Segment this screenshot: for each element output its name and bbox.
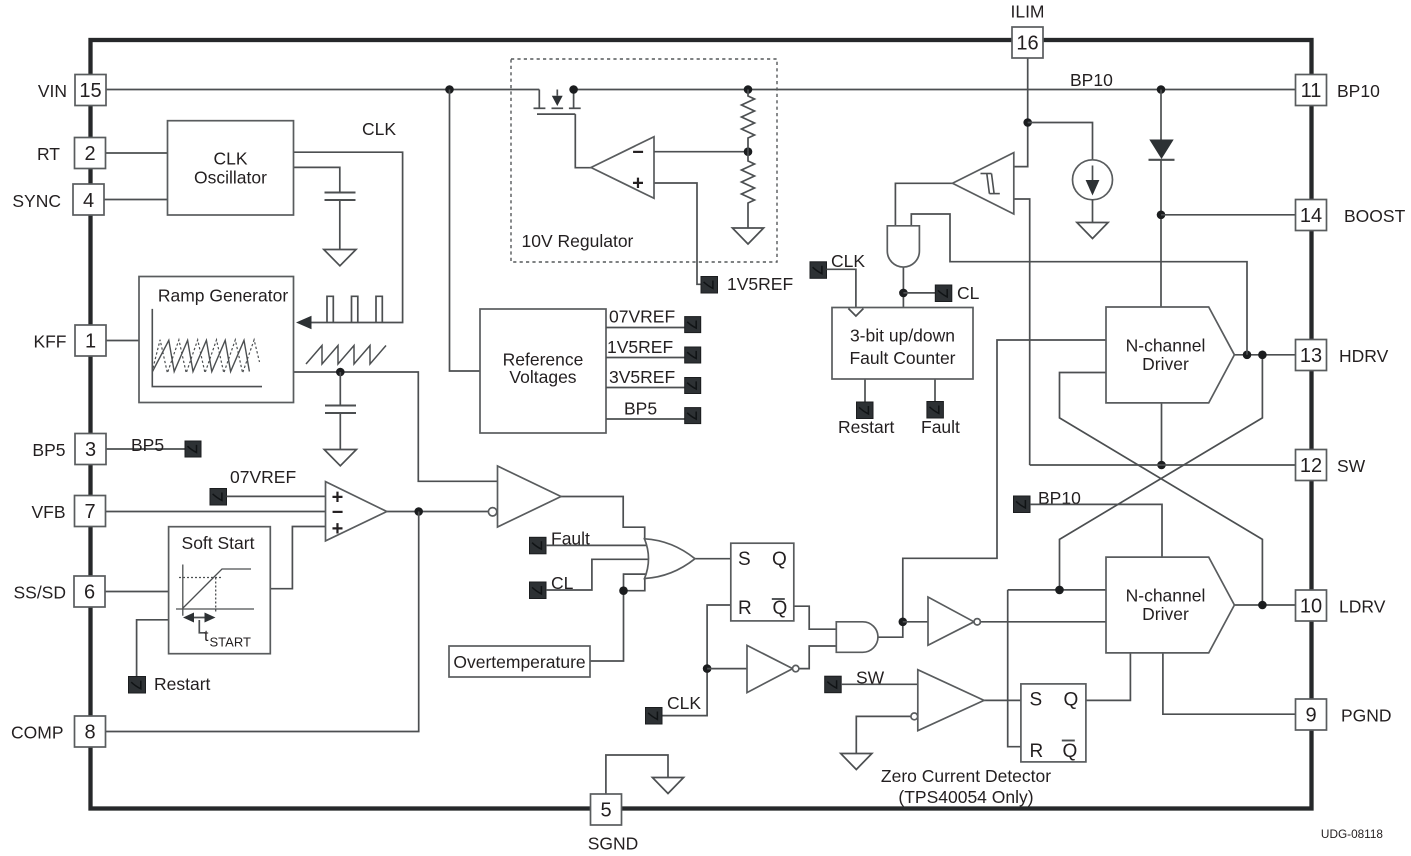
wire ramp capacitor to ground [339,413,341,449]
svg-text:2: 2 [84,143,95,165]
pin HDRV 13 [1296,340,1389,371]
wire 10V regulator output to 1V5REF [654,183,701,284]
transistor arrow [552,96,563,106]
node HDRV output junction A [1243,351,1252,360]
wire ILIM comparator output to fault AND [895,183,952,226]
wire soft start to error amplifier [270,527,325,589]
node CL junction [899,289,908,298]
svg-text:SS/SD: SS/SD [13,583,66,603]
ground below oscillator capacitor [324,250,356,266]
node LDRV output junction [1258,601,1267,610]
wire ILIM junction to current source [1028,123,1093,161]
svg-text:VFB: VFB [31,502,65,522]
node rail-resistor junction [744,85,753,94]
latch U1 SR PWM [731,543,794,621]
wire oscillator to timing capacitor [294,167,340,192]
wire BP10 tag to LDRV driver [1030,504,1162,557]
comparator zero current detector [911,670,984,731]
node BP10 rail diode junction [1157,85,1166,94]
wire HDRV output to pin 13 [1234,354,1295,356]
resistor lower divider [742,152,755,228]
wire HDRV cross-couple down to LDRV and latch2 R [1060,355,1263,590]
capacitor oscillator timing [325,193,356,201]
wire OR gate to latch S [695,558,731,560]
svg-text:PGND: PGND [1341,706,1392,726]
tag 3V5REF output [685,378,701,394]
svg-text:07VREF: 07VREF [609,307,675,327]
svg-text:Restart: Restart [154,674,211,694]
svg-text:15: 15 [79,80,101,102]
block Overtemperature [449,646,590,677]
node VIN-RefVoltages junction [445,85,454,94]
wire CLK oscillator to ramp generator [294,152,403,322]
wire op-amp inverting input to divider [654,151,748,153]
wire PWM comparator to OR gate [561,497,645,541]
and-gate PWM output AND [836,622,878,653]
svg-text:(TPS40054 Only): (TPS40054 Only) [898,787,1033,807]
driver N-channel HDRV [1106,307,1234,403]
ground below ramp capacitor [324,450,356,466]
transistor 10V regulator pass FET [534,90,592,168]
pin RT 2 [37,138,106,169]
svg-text:Q: Q [1063,741,1078,762]
svg-text:Soft Start: Soft Start [182,533,255,553]
wire ZCD comparator to latch2 S [984,699,1021,701]
wire Fault tag to OR gate [546,544,649,546]
tag CL (fault counter) [935,285,952,302]
wire capacitor to ground [339,200,341,249]
svg-text:RT: RT [37,144,60,164]
box 10V regulator dashed [511,59,777,262]
svg-text:−: − [632,142,644,164]
pin SGND 5 [588,794,639,854]
svg-text:Fault Counter: Fault Counter [849,348,955,368]
svg-text:10V Regulator: 10V Regulator [522,231,634,251]
svg-text:1: 1 [85,331,96,353]
svg-text:13: 13 [1300,345,1322,367]
wire VIN to Reference Voltages [450,90,481,372]
svg-text:BP5: BP5 [624,399,657,419]
node CLK-inverter junction [703,664,712,673]
resistor upper divider [742,90,755,152]
svg-text:ILIM: ILIM [1010,2,1044,22]
and-gate fault counter clock [887,226,919,267]
wire rail to diode [1160,90,1162,141]
node LDRV input junction [1055,586,1064,595]
wire ramp junction to capacitor [339,372,341,405]
comparator ILIM with hysteresis [953,153,1014,214]
node overtemperature junction [619,586,628,595]
tag 1V5REF [701,277,718,294]
svg-text:VIN: VIN [38,81,67,101]
svg-text:Zero Current Detector: Zero Current Detector [881,766,1051,786]
tag Restart (soft start) [129,677,146,694]
comparator PWM [488,466,561,527]
block 3-bit up/down Fault Counter [832,308,973,380]
svg-text:16: 16 [1016,33,1038,55]
wire CLK junction to inverter [707,668,747,670]
node ramp-capacitor junction [336,368,345,377]
ground SGND [652,778,683,794]
block Reference Voltages [480,309,606,433]
wire AND output to LDRV buffer [903,621,928,623]
wire LDRV input horizontal [1008,589,1106,591]
icon ramp waveform solid sawtooth [153,340,250,371]
wire SGND pin to ground [606,755,668,794]
svg-text:Q: Q [772,549,787,570]
svg-text:KFF: KFF [33,332,66,352]
wire LDRV driver bottom to PGND [1163,653,1296,714]
tag 1V5REF output [685,347,701,363]
wire inverter to AND gate [798,646,836,669]
wire 07VREF to error amplifier [227,495,326,497]
block Soft Start [169,527,271,654]
ground divider [732,228,763,244]
svg-text:R: R [738,598,752,619]
wire LDRV cross-couple up to HDRV [1060,373,1263,606]
svg-text:8: 8 [84,722,95,744]
svg-text:1V5REF: 1V5REF [727,274,793,294]
inverter CLK [747,645,799,692]
svg-text:1V5REF: 1V5REF [607,337,673,357]
node divider junction [744,147,753,156]
svg-text:Driver: Driver [1142,354,1189,374]
svg-text:Overtemperature: Overtemperature [453,652,585,672]
wire counter Restart stub [864,379,866,402]
wire ZCD comparator inverting input to ground [856,716,911,753]
wire CLK tag to fault counter [827,269,856,307]
wire latch Qbar to AND gate [794,606,837,629]
wire CL junction to tag [903,292,935,294]
tag CLK (fault counter) [810,262,827,279]
svg-text:R: R [1030,741,1044,762]
wire to latch2 R [1008,590,1021,747]
svg-text:CL: CL [957,283,980,303]
svg-text:14: 14 [1300,205,1322,227]
wire overtemperature jog into OR [624,578,645,591]
driver N-channel LDRV [1106,557,1234,653]
pin LDRV 10 [1296,590,1386,621]
icon ramp waveform dashed sawtooth [153,340,260,373]
svg-text:Restart: Restart [838,417,895,437]
svg-text:BP5: BP5 [131,435,164,455]
svg-text:6: 6 [84,582,95,604]
svg-text:BOOST: BOOST [1344,206,1406,226]
tag CLK (latch R) [646,708,663,725]
wire CL tag to OR gate [546,559,652,590]
icon soft start curve [176,565,254,616]
svg-text:10: 10 [1300,596,1322,618]
wire counter Fault stub [934,379,936,402]
svg-text:4: 4 [83,190,94,212]
svg-text:9: 9 [1305,705,1316,727]
svg-text:Driver: Driver [1142,604,1189,624]
pin BP5 3 [32,434,106,465]
tag BP5 output [685,408,701,424]
icon soft start tstart arrows [183,613,216,633]
svg-text:SW: SW [1337,456,1366,476]
wire SYNC to oscillator [104,199,168,201]
svg-text:Ramp Generator: Ramp Generator [158,286,289,306]
pin COMP 8 [11,716,106,747]
pin SYNC 4 [12,184,104,215]
tag Fault (counter) [927,402,944,419]
svg-text:LDRV: LDRV [1339,597,1386,617]
wire SW tag to ZCD comparator [841,683,918,685]
wire VIN rail pin15 to FET [106,89,539,91]
block Ramp Generator [139,277,294,403]
IC boundary frame [91,40,1312,809]
tag 07VREF [210,489,227,506]
svg-text:BP10: BP10 [1337,81,1380,101]
svg-text:S: S [738,549,751,570]
node HDRV output junction B [1258,351,1267,360]
wire ramp output [294,372,498,481]
label tSTART [204,628,251,650]
pin PGND 9 [1296,699,1392,730]
wire LDRV output to pin 10 [1234,604,1295,606]
wire COMP to pin 8 [106,512,419,732]
block CLK Oscillator [168,121,294,215]
wire VFB to error amplifier [106,511,326,513]
svg-text:N-channel: N-channel [1126,336,1206,356]
wire latch2 Q to LDRV driver [1086,653,1131,701]
wire overtemperature to OR gate [590,574,646,661]
wire BOOST to pin 14 [1161,214,1296,216]
svg-text:Fault: Fault [921,417,960,437]
svg-text:07VREF: 07VREF [230,467,296,487]
svg-text:S: S [1030,690,1043,711]
svg-text:Oscillator: Oscillator [194,168,267,188]
wire current source to ground [1092,199,1094,222]
node BOOST junction [1157,211,1166,220]
svg-text:Q: Q [773,598,788,619]
svg-text:Voltages: Voltages [509,367,576,387]
wire HDRV output feedback to fault AND [911,214,1247,355]
svg-text:Q: Q [1064,690,1079,711]
op-amp 10V regulator [591,137,654,199]
wire 3V5REF output [606,387,685,389]
waveform clock pulses [327,296,382,322]
latch U2 zero current SR [1021,684,1086,762]
svg-text:7: 7 [84,501,95,523]
wire 07VREF output [606,327,685,329]
pin VFB 7 [31,496,105,527]
svg-text:SGND: SGND [588,834,639,854]
svg-text:CLK: CLK [362,119,396,139]
wire AND output node [878,340,1106,637]
svg-text:COMP: COMP [11,723,64,743]
svg-text:HDRV: HDRV [1339,346,1389,366]
wire ILIM comparator lower input to SW [1014,199,1030,465]
wire 1V5REF output [606,357,685,359]
op-amp error amplifier [326,482,387,541]
node ILIM junction [1023,118,1032,127]
svg-text:+: + [632,173,644,195]
svg-text:3: 3 [85,439,96,461]
capacitor ramp [325,406,356,414]
svg-text:N-channel: N-channel [1126,586,1206,606]
node COMP junction [414,507,423,516]
wire SW to pin 12 [1030,464,1296,466]
diode BP10 to BOOST [1149,140,1175,160]
wire KFF to ramp generator [106,340,139,342]
wire diode to HDRV driver top [1160,160,1162,307]
tag SW (zero current) [825,676,842,693]
pin SW 12 [1296,450,1366,481]
svg-text:BP10: BP10 [1070,70,1113,90]
buffer inverting LDRV driver stage [928,597,980,645]
tag BP5 [185,441,201,457]
svg-text:11: 11 [1301,80,1322,102]
svg-text:CLK: CLK [213,149,247,169]
wire BP10 rail FET to pin11 [574,89,1296,91]
wire SS/SD to soft start [105,591,169,593]
wire HDRV driver bottom to SW [1161,403,1163,465]
svg-text:START: START [210,635,251,650]
ground ZCD [841,754,872,770]
node FET drain junction [569,85,578,94]
arrowhead into ramp generator [296,316,312,329]
tag Fault (OR input) [530,537,547,554]
wire RT to oscillator [106,152,169,154]
wire error amp output to PWM comparator [387,511,489,513]
pin BP10 11 [1296,75,1381,106]
pin SS/SD 6 [13,576,105,607]
tag BP10 (LDRV) [1014,496,1031,513]
wire buffer to LDRV driver [980,621,1106,623]
svg-text:3-bit up/down: 3-bit up/down [850,326,955,346]
svg-text:12: 12 [1300,455,1322,477]
svg-text:+: + [332,518,344,540]
waveform sawtooth icon [306,346,386,365]
or-gate PWM fault OR [645,539,696,579]
icon ramp waveform axes [152,309,262,387]
pin VIN 15 [38,75,106,106]
svg-text:3V5REF: 3V5REF [609,367,675,387]
wire ILIM pin to comparator [1014,58,1028,167]
pin KFF 1 [33,325,106,356]
wire BP5 pin to tag [106,448,185,450]
wire fault AND gate output to counter [902,267,904,308]
wire soft start restart [137,620,169,677]
tag 07VREF output [685,317,701,333]
svg-text:t: t [204,628,209,645]
node AND output junction [899,618,908,627]
wire BP5 output [606,418,685,420]
svg-text:CLK: CLK [667,693,701,713]
ground below current source [1077,223,1108,239]
svg-text:UDG-08118: UDG-08118 [1321,827,1384,841]
svg-text:5: 5 [600,800,611,822]
node SW junction [1157,461,1166,470]
pin ILIM 16 [1010,2,1044,59]
svg-text:CLK: CLK [831,251,865,271]
tag Restart (counter) [857,402,874,419]
wire CLK to latch R [662,605,731,716]
svg-text:SYNC: SYNC [12,191,61,211]
pin BOOST 14 [1296,200,1406,231]
svg-text:BP5: BP5 [32,440,65,460]
tag CL (OR input) [530,582,547,599]
current source ILIM [1073,160,1113,200]
